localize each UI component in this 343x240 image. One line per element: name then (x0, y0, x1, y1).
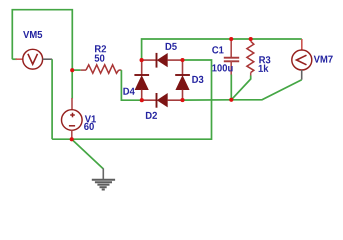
diode D4 (134, 60, 149, 100)
resistor R2 (72, 65, 142, 100)
diode D2 (142, 93, 183, 108)
node bridge TL (140, 58, 144, 62)
node bridge BL (140, 98, 144, 102)
node main output junction (229, 98, 233, 102)
wire: C1 bottom to junction (230, 75, 232, 100)
label 100u (212, 64, 232, 71)
voltage source V1 (62, 98, 83, 139)
label VM5 (23, 31, 42, 38)
label C1 (212, 46, 223, 53)
wire: bottom rail left (52, 138, 72, 140)
label D2 (146, 112, 157, 119)
label R3 (259, 56, 270, 63)
node C1 top (229, 37, 233, 41)
wire: junction down to V1 (71, 70, 73, 98)
resistor R3 (247, 39, 254, 76)
label 60 (84, 123, 94, 130)
wire: diagonal to ground (72, 139, 104, 169)
capacitor C1 (224, 39, 239, 75)
label VM7 (314, 56, 333, 63)
diode D3 (175, 60, 190, 100)
wire: R3 bottom to junction (231, 76, 250, 100)
wire: bridge BR to junction (183, 99, 232, 101)
label D5 (166, 43, 177, 50)
wire: VM5 top loop (12, 10, 72, 70)
label R2 (95, 45, 106, 52)
diode D5 (142, 53, 183, 68)
wire: bridge TL up to top rail (142, 39, 302, 60)
label 50 (95, 55, 105, 62)
node bridge TR (180, 58, 184, 62)
wire: VM5 minus to bottom rail (51, 59, 53, 139)
label 1k (259, 65, 269, 72)
wire: junction to VM7 (231, 80, 301, 100)
wire: bridge TR to right down and bottom rail (72, 60, 212, 139)
label D4 (123, 88, 134, 95)
node junction at R2/V1 (70, 68, 74, 72)
voltmeter VM5 (12, 49, 52, 69)
node bridge BR (180, 98, 184, 102)
label D3 (192, 76, 203, 83)
label V1 (85, 115, 96, 122)
ground (92, 168, 115, 189)
voltmeter VM7 (292, 39, 312, 80)
node junction at V1 bottom (70, 137, 74, 141)
node R3 top (249, 37, 253, 41)
